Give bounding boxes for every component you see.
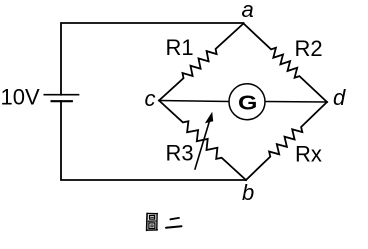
- svg-text:c: c: [145, 86, 156, 111]
- svg-text:G: G: [238, 92, 257, 114]
- svg-text:R3: R3: [166, 140, 194, 165]
- svg-text:d: d: [333, 85, 346, 110]
- svg-text:Rx: Rx: [295, 141, 322, 166]
- svg-text:a: a: [242, 0, 254, 22]
- svg-text:b: b: [242, 180, 254, 205]
- svg-text:10V: 10V: [1, 84, 40, 109]
- svg-text:R2: R2: [295, 36, 323, 61]
- svg-text:R1: R1: [166, 35, 194, 60]
